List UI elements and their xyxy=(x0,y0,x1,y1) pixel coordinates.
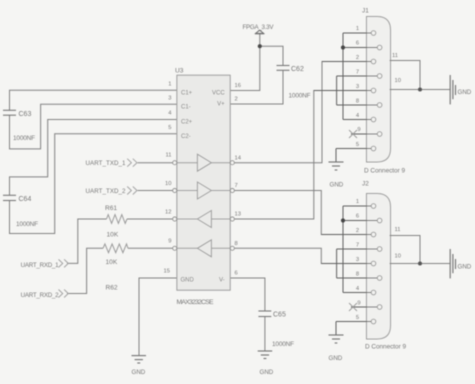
svg-text:C1+: C1+ xyxy=(181,90,193,96)
resistor R62 xyxy=(103,244,128,253)
wire J2 shield 11 xyxy=(390,236,421,264)
svg-text:1000NF: 1000NF xyxy=(13,135,35,142)
svg-text:UART_TXD_2: UART_TXD_2 xyxy=(86,188,127,195)
svg-text:GND: GND xyxy=(458,89,472,96)
J1 pin9 stub xyxy=(351,133,377,135)
wire J1 shield 11 xyxy=(390,61,421,90)
svg-text:J1: J1 xyxy=(362,8,369,15)
wire J2 shield 10 to GND xyxy=(390,263,451,265)
wire power branch to C62 xyxy=(260,46,283,65)
svg-text:GND: GND xyxy=(458,264,472,271)
J2 pin9 stub xyxy=(351,306,377,308)
svg-text:C64: C64 xyxy=(19,196,32,203)
svg-text:J2: J2 xyxy=(362,181,369,188)
J1 pin1 stub xyxy=(343,32,371,34)
J2 pin8 stub xyxy=(337,277,377,279)
wire pin14 to J1 pin2 xyxy=(230,62,366,163)
capacitor C65 xyxy=(258,311,271,317)
svg-text:FPGA_3.3V: FPGA_3.3V xyxy=(243,24,275,31)
svg-text:10K: 10K xyxy=(106,259,118,266)
wire UART_TXD_2 to pin10 xyxy=(138,190,177,192)
ground (J1 shield) rotated xyxy=(450,75,455,104)
svg-text:8: 8 xyxy=(356,99,359,105)
connector J1 body xyxy=(367,17,391,163)
ground (J2 shield) rotated xyxy=(450,249,455,278)
svg-text:GND: GND xyxy=(260,369,274,376)
J1 pin7 stub xyxy=(337,75,377,77)
svg-text:12: 12 xyxy=(165,209,171,215)
svg-text:GND: GND xyxy=(132,369,146,376)
svg-text:C1-: C1- xyxy=(181,104,191,110)
svg-text:5: 5 xyxy=(168,125,171,131)
svg-text:MAX3232CSE: MAX3232CSE xyxy=(177,299,214,306)
svg-text:UART_RXD_1: UART_RXD_1 xyxy=(21,262,60,269)
wire J2 pin5 to ground xyxy=(335,322,337,335)
svg-text:6: 6 xyxy=(356,214,359,220)
ground (C65 net) xyxy=(258,351,273,359)
J1 pin2 stub xyxy=(322,61,371,63)
svg-text:C63: C63 xyxy=(19,111,32,118)
wire R61 to pin12 xyxy=(127,218,177,220)
J2 pin2 stub xyxy=(321,234,371,236)
J2 stub wires xyxy=(321,206,377,322)
svg-text:9: 9 xyxy=(357,127,360,133)
node junction FPGA_3.3V / pin16 xyxy=(258,44,262,48)
wire J1 7-8 tie xyxy=(336,76,338,105)
svg-text:2: 2 xyxy=(356,228,359,234)
svg-text:GND: GND xyxy=(181,277,195,283)
buffer T2 xyxy=(177,182,230,199)
svg-text:10: 10 xyxy=(165,181,171,187)
J1 pin8 stub xyxy=(337,104,377,106)
svg-text:7: 7 xyxy=(356,70,359,76)
svg-text:9: 9 xyxy=(168,239,171,245)
wire pin1 C1+ net xyxy=(10,90,177,110)
buffer T1 xyxy=(177,154,230,171)
wire J2 7-8 tie xyxy=(336,249,338,278)
svg-text:14: 14 xyxy=(235,156,242,162)
node J1 shield junction xyxy=(418,88,422,92)
svg-text:10: 10 xyxy=(395,254,401,260)
svg-text:1000NF: 1000NF xyxy=(272,341,294,348)
svg-text:3: 3 xyxy=(168,95,171,101)
J1 pin circles xyxy=(371,31,382,151)
J1 bus 1-6-4 xyxy=(342,33,344,120)
svg-text:6: 6 xyxy=(235,271,238,277)
svg-text:7: 7 xyxy=(235,183,238,189)
svg-text:1: 1 xyxy=(356,199,359,205)
svg-text:2: 2 xyxy=(235,97,238,103)
ground (pin15 net) xyxy=(132,356,147,363)
svg-text:GND: GND xyxy=(329,355,343,362)
svg-text:U3: U3 xyxy=(175,68,184,75)
node J2 pin6 junction xyxy=(341,218,345,222)
wire C63 bottom to pin3 C1- net xyxy=(10,104,177,149)
buffer T4 (receiver) xyxy=(177,240,230,257)
J2 bus 1-6-4 xyxy=(342,206,344,293)
svg-text:11: 11 xyxy=(392,53,398,59)
wire pin15 GND net xyxy=(139,278,177,355)
wire UART_RXD_2 to R62 xyxy=(67,248,103,293)
J1 stub wires xyxy=(314,33,377,149)
svg-text:GND: GND xyxy=(330,182,344,189)
svg-text:9: 9 xyxy=(357,301,360,307)
J1 pin4 stub xyxy=(343,119,371,121)
wire C62 bottom to pin2 V+ xyxy=(230,70,283,104)
J2 pin6 stub xyxy=(343,220,377,222)
J2 pin9 no-connect cross xyxy=(349,303,357,311)
svg-text:2: 2 xyxy=(356,55,359,61)
wire C65 bottom to GND xyxy=(264,317,266,351)
capacitor C63 xyxy=(3,110,16,115)
ground (J1 pin5) xyxy=(329,162,344,170)
svg-text:UART_RXD_2: UART_RXD_2 xyxy=(21,292,60,299)
svg-text:10K: 10K xyxy=(107,232,119,239)
svg-text:8: 8 xyxy=(356,272,359,278)
wire R62 to pin9 xyxy=(128,247,177,249)
ground (J2 pin5) xyxy=(329,335,344,343)
connector J2 body xyxy=(367,194,391,340)
resistor R61 xyxy=(107,215,128,224)
wire pin6 V- to C65 xyxy=(230,278,265,311)
svg-text:8: 8 xyxy=(235,241,238,247)
svg-text:C62: C62 xyxy=(291,66,304,73)
buffer T3 (receiver) xyxy=(177,211,230,228)
svg-text:7: 7 xyxy=(356,243,359,249)
J2 pin4 stub xyxy=(343,292,371,294)
svg-text:D Connector 9: D Connector 9 xyxy=(365,344,406,351)
svg-text:C65: C65 xyxy=(273,312,286,319)
J1 pin5 stub xyxy=(336,148,371,150)
wire UART_RXD_1 to R61 xyxy=(67,219,107,263)
svg-text:R62: R62 xyxy=(106,285,118,292)
J1 pin6 stub xyxy=(343,47,377,49)
svg-text:1000NF: 1000NF xyxy=(16,221,38,228)
svg-text:R61: R61 xyxy=(105,205,117,212)
J2 pin1 stub xyxy=(343,205,371,207)
svg-text:11: 11 xyxy=(165,153,171,159)
J2 pin3 stub xyxy=(321,263,371,265)
svg-text:6: 6 xyxy=(356,41,359,47)
svg-text:C2-: C2- xyxy=(181,134,191,140)
svg-text:11: 11 xyxy=(395,227,401,233)
svg-text:1: 1 xyxy=(168,81,171,87)
wire UART_TXD_1 to pin11 xyxy=(138,162,177,164)
capacitor C64 xyxy=(3,195,16,200)
wire pin7 to J2 pin2 xyxy=(230,191,366,235)
J2 pin5 stub xyxy=(336,321,371,323)
svg-text:V+: V+ xyxy=(217,102,225,108)
J1 pin3 stub xyxy=(314,90,371,92)
svg-text:3: 3 xyxy=(356,84,359,90)
wire J1 pin5 to ground xyxy=(335,149,337,162)
wire pin8 to J2 pin3 xyxy=(230,248,366,263)
svg-text:13: 13 xyxy=(235,212,241,218)
wire pin16 VCC net xyxy=(230,34,260,91)
J2 pin7 stub xyxy=(337,248,377,250)
svg-text:10: 10 xyxy=(395,78,401,84)
node J1 pin6 junction xyxy=(341,45,345,49)
pin connection dots (open) xyxy=(173,161,235,251)
svg-text:V-: V- xyxy=(219,277,225,283)
IC U3 MAX3232CSE body xyxy=(177,75,230,290)
wire J1 shield 10 to GND xyxy=(390,89,451,91)
J2 pin circles xyxy=(371,204,382,324)
svg-text:C2+: C2+ xyxy=(181,120,193,126)
wire pin13 to J1 pin3 xyxy=(230,91,366,220)
svg-text:VCC: VCC xyxy=(212,90,225,96)
power symbol FPGA_3.3V xyxy=(255,30,264,34)
svg-text:3: 3 xyxy=(356,257,359,263)
svg-text:5: 5 xyxy=(356,142,359,148)
svg-text:1: 1 xyxy=(356,26,359,32)
svg-text:UART_TXD_1: UART_TXD_1 xyxy=(86,160,127,167)
node J2 shield junction xyxy=(418,262,422,266)
wire C64 bottom to pin5 C2- net xyxy=(10,134,177,234)
capacitor C62 xyxy=(277,66,290,71)
svg-text:16: 16 xyxy=(235,83,241,89)
wire pin4 C2+ net xyxy=(10,120,177,196)
svg-text:D Connector 9: D Connector 9 xyxy=(364,168,405,175)
J1 pin9 no-connect cross xyxy=(349,130,357,138)
svg-text:1000NF: 1000NF xyxy=(289,93,311,100)
svg-text:15: 15 xyxy=(164,268,170,274)
svg-text:5: 5 xyxy=(356,315,359,321)
